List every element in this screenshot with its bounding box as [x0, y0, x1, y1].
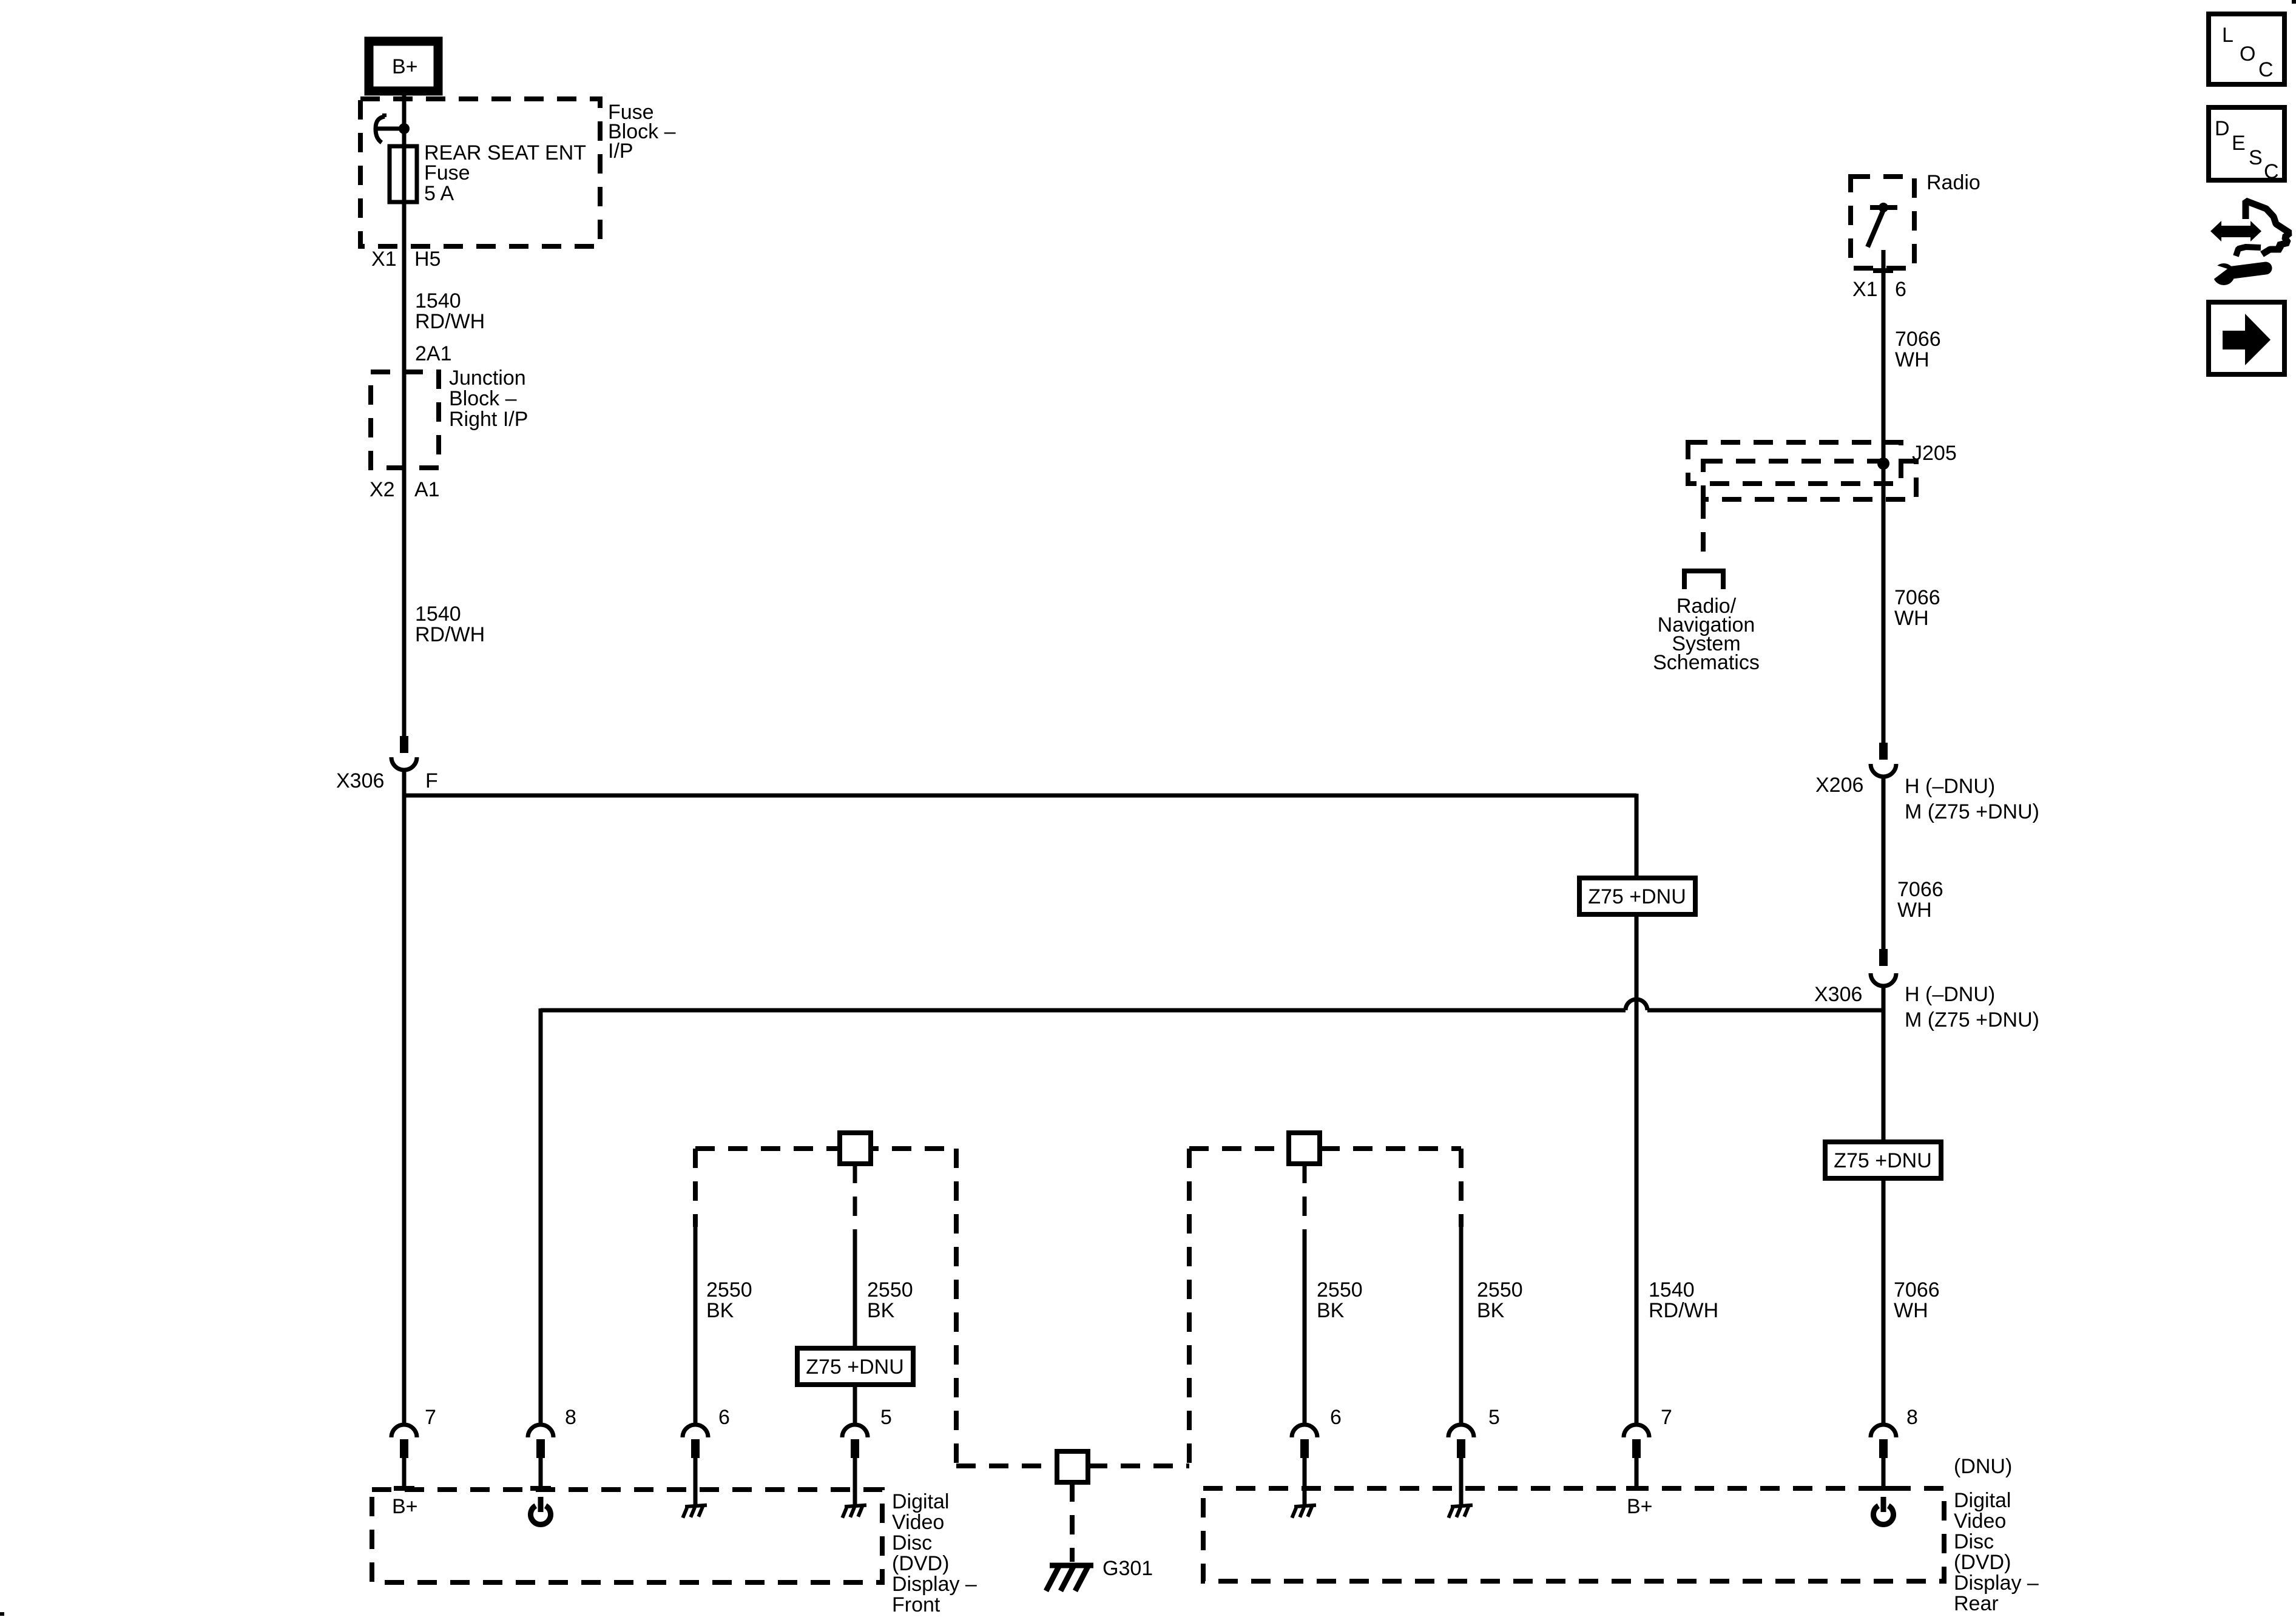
internal ground symbol front pin 5 [842, 1505, 867, 1518]
svg-text:E: E [2232, 132, 2246, 155]
shield wire rear pin 6 [1303, 1164, 1307, 1425]
Z75 +DNU option box 3 [797, 1348, 913, 1385]
svg-text:RD/WH: RD/WH [415, 310, 485, 333]
pin label 7 rear [1661, 1406, 1672, 1429]
shield box rear (dashed) [1189, 1149, 1461, 1466]
svg-text:Front: Front [892, 1593, 940, 1616]
splice dot J205 [1877, 457, 1889, 470]
svg-text:D: D [2215, 117, 2230, 140]
wire from Z75 box 3 to front pin 5 [853, 1385, 857, 1425]
wire label 1540 RD/WH [415, 289, 485, 333]
pin label 8 rear [1906, 1406, 1918, 1429]
DVD rear pin 7 connector [1624, 1425, 1649, 1491]
svg-text:A1: A1 [414, 478, 440, 501]
wire label 7066 WH rear [1894, 1278, 1940, 1322]
svg-text:Schematics: Schematics [1653, 651, 1760, 674]
svg-text:WH: WH [1897, 899, 1932, 922]
splice label J205 [1912, 442, 1957, 465]
fuse REAR SEAT ENT 5 A [390, 146, 417, 202]
junction dot [399, 123, 410, 134]
drain wire front pin 6 [694, 1224, 698, 1425]
svg-text:6: 6 [1895, 278, 1906, 301]
wire label 2550 BK rear pin 5 [1477, 1278, 1523, 1322]
svg-text:Fuse: Fuse [424, 161, 470, 184]
svg-text:WH: WH [1895, 348, 1930, 371]
Z75 +DNU option box 2 [1825, 1142, 1941, 1178]
connector label X1 6 [1852, 278, 1906, 301]
Radio dashed box [1851, 177, 1914, 268]
wire 1540 RD/WH from fuse to X306 [402, 202, 407, 736]
DVD rear pin 5 connector [1448, 1425, 1474, 1506]
svg-text:H (–DNU): H (–DNU) [1905, 983, 1995, 1006]
connector label X206 H M [1815, 774, 2039, 823]
svg-text:(DVD): (DVD) [892, 1552, 949, 1575]
connector X306 pin F [391, 736, 417, 770]
svg-text:F: F [425, 769, 438, 792]
svg-text:6: 6 [718, 1406, 730, 1429]
icon LOC box [2209, 14, 2284, 84]
svg-text:X2: X2 [370, 478, 395, 501]
svg-text:B+: B+ [392, 55, 418, 78]
wire label 7066 WH [1897, 878, 1943, 922]
svg-text:BK: BK [1317, 1299, 1345, 1322]
svg-text:7066: 7066 [1897, 878, 1943, 901]
internal ground symbol rear pin 5 [1448, 1505, 1473, 1518]
svg-text:8: 8 [1906, 1406, 1918, 1429]
svg-text:7066: 7066 [1894, 586, 1940, 609]
svg-text:Radio: Radio [1926, 171, 1980, 194]
DVD front pin 7 connector [391, 1425, 417, 1491]
pin label 5 rear [1488, 1406, 1500, 1429]
connector label X1 H5 [371, 248, 441, 271]
svg-text:Right I/P: Right I/P [449, 408, 528, 431]
Junction Block - Right I/P dashed box [371, 372, 439, 468]
internal power symbol rear [1874, 1497, 1894, 1525]
reference label Radio/Navigation System Schematics [1653, 595, 1760, 674]
icon DESC box [2209, 107, 2284, 183]
ground label G301 [1102, 1557, 1153, 1580]
svg-text:H5: H5 [414, 248, 441, 271]
svg-text:S: S [2249, 146, 2263, 169]
svg-text:7: 7 [1661, 1406, 1672, 1429]
wire label 1540 RD/WH [415, 603, 485, 646]
svg-text:B+: B+ [392, 1495, 418, 1518]
wire label 2550 BK front pin 5 [867, 1278, 913, 1322]
svg-text:Display –: Display – [892, 1573, 977, 1596]
drain wire rear pin 5 [1459, 1224, 1464, 1425]
internal ground symbol rear pin 6 [1291, 1505, 1317, 1518]
svg-text:BK: BK [867, 1299, 895, 1322]
svg-text:(DNU): (DNU) [1954, 1455, 2012, 1478]
svg-text:5: 5 [1488, 1406, 1500, 1429]
svg-text:1540: 1540 [1649, 1278, 1695, 1301]
pin label 5 [880, 1406, 892, 1429]
DVD display front dashed box [372, 1490, 882, 1582]
svg-text:5 A: 5 A [424, 182, 454, 205]
svg-text:H (–DNU): H (–DNU) [1905, 775, 1995, 798]
svg-text:2550: 2550 [1317, 1278, 1363, 1301]
wire 7066 WH between X206 and X306 [1882, 777, 1886, 949]
switched feed wire to DVD front pin 8 [541, 999, 1883, 1425]
svg-text:C: C [2264, 160, 2279, 183]
connector label X2 A1 [370, 478, 440, 501]
svg-text:7: 7 [425, 1406, 436, 1429]
DVD rear pin 6 connector [1292, 1425, 1317, 1506]
Z75 +DNU option box 1 [1579, 878, 1695, 914]
wire label 2550 BK rear pin 6 [1317, 1278, 1363, 1322]
DVD display front label [892, 1490, 977, 1616]
DVD rear pin 8 connector [1871, 1425, 1896, 1491]
svg-text:Z75 +DNU: Z75 +DNU [1834, 1149, 1932, 1172]
svg-text:2550: 2550 [867, 1278, 913, 1301]
B+ power symbol box [369, 41, 438, 91]
Radio label [1926, 171, 1980, 194]
svg-text:WH: WH [1894, 1299, 1928, 1322]
svg-text:G301: G301 [1102, 1557, 1153, 1580]
svg-text:M (Z75 +DNU): M (Z75 +DNU) [1905, 800, 2039, 823]
DVD display rear label [1954, 1489, 2039, 1615]
svg-text:2550: 2550 [706, 1278, 752, 1301]
wire X306 F down to DVD front pin 7 [402, 770, 407, 1425]
shield terminal square rear [1289, 1133, 1320, 1164]
svg-text:X306: X306 [336, 769, 384, 792]
svg-text:X206: X206 [1815, 774, 1863, 797]
svg-text:6: 6 [1330, 1406, 1342, 1429]
svg-text:BK: BK [1477, 1299, 1505, 1322]
shield ground terminal square [1057, 1451, 1088, 1482]
svg-text:Video: Video [892, 1511, 944, 1534]
fuse label [424, 141, 586, 205]
connector X306 pin H right [1871, 949, 1896, 986]
svg-text:Z75 +DNU: Z75 +DNU [806, 1355, 904, 1379]
DVD front pin 8 connector [528, 1425, 553, 1491]
svg-text:7066: 7066 [1894, 1278, 1940, 1301]
svg-text:X1: X1 [1852, 278, 1878, 301]
svg-text:RD/WH: RD/WH [1649, 1299, 1718, 1322]
wire branch to rear display B+ [402, 794, 1636, 878]
note (DNU) [1954, 1455, 2012, 1478]
internal power symbol front [531, 1497, 551, 1525]
wire from B+ into fuse block [402, 91, 407, 146]
svg-text:Display –: Display – [1954, 1571, 2039, 1595]
icon forward arrow box [2209, 302, 2284, 374]
svg-text:RD/WH: RD/WH [415, 623, 485, 646]
svg-text:(DVD): (DVD) [1954, 1551, 2011, 1574]
internal label B+ front [392, 1495, 418, 1518]
wire label 1540 RD/WH rear [1649, 1278, 1718, 1322]
pin label 7 [425, 1406, 436, 1429]
svg-text:1540: 1540 [415, 289, 461, 312]
svg-text:Disc: Disc [1954, 1530, 1994, 1553]
bus tap symbol [376, 115, 400, 143]
radio output wire and case tick [1873, 250, 1893, 743]
wire label 2550 BK front pin 6 [706, 1278, 752, 1322]
page corner mark bottom left [0, 1612, 4, 1616]
Junction Block label [449, 366, 528, 431]
shield wire front pin 5 [853, 1164, 857, 1348]
svg-text:WH: WH [1894, 607, 1929, 630]
wire from Z75 box down to rear pin 7 [1635, 914, 1639, 1425]
svg-text:Disc: Disc [892, 1531, 932, 1555]
svg-text:O: O [2240, 42, 2255, 66]
shield ground bus (dashed) [956, 1463, 1189, 1468]
connector label X306 F [336, 769, 438, 792]
terminal label 2A1 [415, 342, 452, 365]
drain to ground (dashed) [1070, 1482, 1075, 1562]
pin label 6 [718, 1406, 730, 1429]
ground G301 [1046, 1565, 1093, 1591]
svg-text:L: L [2222, 24, 2234, 47]
svg-text:J205: J205 [1912, 442, 1957, 465]
svg-text:2550: 2550 [1477, 1278, 1523, 1301]
svg-text:Block –: Block – [449, 387, 517, 410]
svg-text:8: 8 [565, 1406, 576, 1429]
svg-text:M (Z75 +DNU): M (Z75 +DNU) [1905, 1008, 2039, 1031]
svg-text:X1: X1 [371, 248, 397, 271]
wire label 7066 WH [1894, 586, 1940, 630]
svg-text:Rear: Rear [1954, 1592, 1999, 1615]
svg-text:Video: Video [1954, 1510, 2006, 1533]
Fuse Block label [608, 101, 676, 163]
svg-text:Digital: Digital [1954, 1489, 2011, 1512]
svg-text:B+: B+ [1627, 1495, 1653, 1518]
svg-text:BK: BK [706, 1299, 734, 1322]
DVD front pin 5 connector [842, 1425, 868, 1506]
internal label B+ rear [1627, 1495, 1653, 1518]
DVD display rear dashed box [1203, 1488, 1944, 1581]
svg-text:2A1: 2A1 [415, 342, 452, 365]
wire from Z75 box 2 to rear pin 8 [1882, 1178, 1886, 1425]
wire X306 down to Z75 box 2 [1882, 986, 1886, 1142]
splice J205 dashed pack [1688, 442, 1916, 499]
page corner mark top right [2292, 0, 2296, 4]
shield terminal square front [840, 1133, 871, 1164]
icon harness routing (double arrow, outline, wrench) [2209, 201, 2290, 285]
svg-text:7066: 7066 [1895, 328, 1941, 351]
svg-text:Junction: Junction [449, 366, 526, 390]
DVD front pin 6 connector [683, 1425, 708, 1506]
internal ground symbol front pin 6 [682, 1505, 707, 1518]
svg-text:Z75 +DNU: Z75 +DNU [1588, 885, 1686, 908]
connector label X306 H M right [1814, 983, 2039, 1031]
svg-text:1540: 1540 [415, 603, 461, 626]
svg-text:Digital: Digital [892, 1490, 949, 1513]
svg-text:C: C [2258, 58, 2274, 81]
svg-text:I/P: I/P [608, 140, 633, 163]
radio internal switch [1868, 203, 1897, 247]
svg-text:X306: X306 [1814, 983, 1862, 1006]
pin label 8 [565, 1406, 576, 1429]
wire label 7066 WH [1895, 328, 1941, 371]
dashed reference drop to other schematic [1684, 499, 1723, 589]
pin label 6 rear [1330, 1406, 1342, 1429]
Fuse Block - I/P dashed box [360, 99, 600, 246]
svg-text:5: 5 [880, 1406, 892, 1429]
connector X206 pin H [1871, 743, 1896, 777]
shield box front (dashed) [695, 1149, 956, 1466]
